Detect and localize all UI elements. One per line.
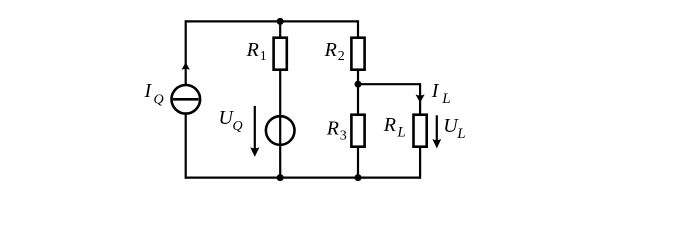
resistor R1	[274, 38, 287, 70]
node dot R2-R3 junction	[355, 81, 362, 88]
svg-text:Q: Q	[154, 93, 164, 108]
arrow UL (down)	[432, 115, 441, 148]
wire middle horizontal to RL	[358, 83, 420, 85]
label IQ	[144, 80, 164, 107]
resistor R2	[351, 38, 364, 70]
label UL	[443, 115, 465, 142]
svg-text:2: 2	[338, 49, 345, 64]
svg-text:L: L	[396, 124, 405, 140]
svg-text:R: R	[246, 39, 259, 61]
wire R1 column	[279, 21, 281, 177]
label IL	[431, 80, 451, 107]
svg-text:1: 1	[260, 49, 267, 64]
label RL	[383, 114, 406, 141]
svg-text:I: I	[431, 80, 440, 102]
svg-text:R: R	[324, 39, 337, 61]
resistor RL	[414, 115, 427, 147]
arrow IQ direction (up)	[182, 62, 190, 70]
svg-text:3: 3	[340, 129, 347, 144]
wire RL column	[419, 83, 421, 179]
label R3	[326, 118, 347, 144]
wire R2/R3 column	[357, 20, 359, 177]
voltage source UQ	[266, 116, 295, 145]
node dot bottom R1	[277, 174, 284, 181]
resistor R3	[351, 115, 364, 147]
wire bottom horizontal	[186, 177, 420, 179]
arrow UQ (down)	[250, 106, 259, 157]
svg-text:L: L	[456, 126, 465, 142]
svg-text:Q: Q	[233, 119, 243, 134]
label UQ	[219, 107, 243, 134]
node dot top R1	[277, 18, 284, 25]
arrow IL current (down)	[416, 94, 425, 102]
label R2	[324, 39, 345, 64]
wire top horizontal	[186, 20, 358, 22]
svg-text:R: R	[383, 114, 396, 136]
node dot bottom R3	[355, 174, 362, 181]
svg-text:R: R	[326, 118, 339, 140]
label R1	[246, 39, 267, 64]
svg-text:L: L	[441, 91, 450, 107]
current source IQ	[172, 85, 201, 114]
svg-text:I: I	[144, 80, 153, 102]
wire left vertical	[185, 20, 187, 178]
